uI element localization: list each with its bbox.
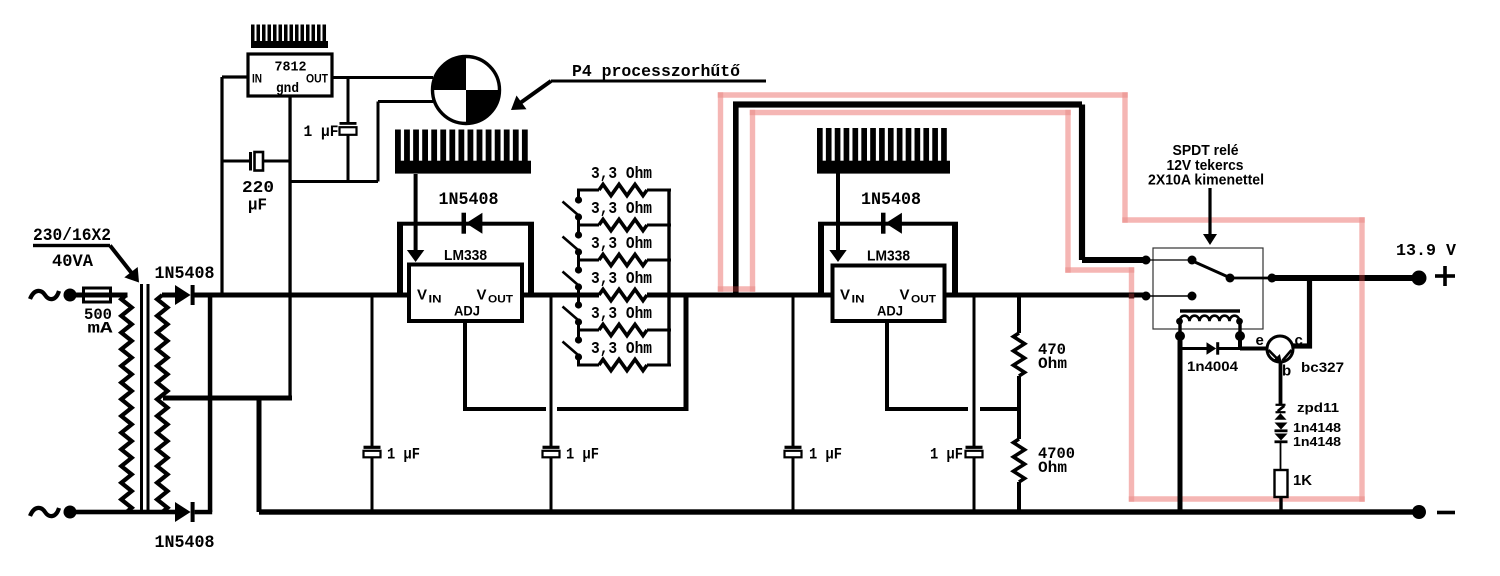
capacitor C3 1uF xyxy=(371,295,374,446)
fuse F1 500mA xyxy=(84,288,111,302)
arrow to fan xyxy=(516,81,551,106)
overlap dark squares xyxy=(733,286,739,291)
svg-text:3,3 Ohm: 3,3 Ohm xyxy=(591,269,652,288)
resistor R5 3,3 Ohm xyxy=(599,324,647,335)
main bus: rectifier to LM338#1 xyxy=(193,293,409,298)
relay coil xyxy=(1180,309,1240,312)
top loop wire: to relay contact xyxy=(1082,257,1146,263)
svg-text:1 µF: 1 µF xyxy=(566,446,599,464)
svg-text:40VA: 40VA xyxy=(52,252,93,272)
resistor R3 right lead xyxy=(647,259,671,262)
diode loop top xyxy=(397,222,534,226)
svg-text:OUT: OUT xyxy=(911,294,936,306)
label underline xyxy=(33,244,110,247)
relay lever end xyxy=(1226,274,1235,283)
svg-text:mA: mA xyxy=(88,320,114,338)
relay wire to output contact xyxy=(1230,277,1272,280)
transistor Q1 bc327 xyxy=(1267,336,1293,362)
label underline xyxy=(551,80,766,83)
svg-text:1N5408: 1N5408 xyxy=(155,264,215,284)
svg-text:Ohm: Ohm xyxy=(1038,459,1067,477)
wire coil left to 0V rail xyxy=(1178,336,1183,512)
svg-text:13.9 V: 13.9 V xyxy=(1396,241,1456,260)
svg-text:V: V xyxy=(477,287,487,304)
flyback diode D5 1n4004 xyxy=(1207,342,1217,355)
resistor R2 right lead xyxy=(647,224,671,227)
heatsink for LM338#1 xyxy=(395,161,531,174)
capacitor C4 1uF xyxy=(550,295,553,446)
wire: bottom input to windings xyxy=(70,510,162,515)
arrowhead xyxy=(511,96,527,111)
wire D5 to emitter node xyxy=(1219,347,1241,350)
arrow to transformer xyxy=(110,246,134,277)
svg-text:1N5408: 1N5408 xyxy=(155,533,215,553)
plus sign xyxy=(1435,274,1455,278)
input terminal bottom (node) xyxy=(64,506,77,519)
switch S5 lever (open) xyxy=(563,342,578,355)
wire 7812 gnd down to center tap xyxy=(288,96,291,398)
coil left lead xyxy=(1178,321,1181,336)
ADJ wire 2 right xyxy=(885,407,968,411)
resistor R6 right lead xyxy=(647,364,671,367)
switch S2 lever (open) xyxy=(563,237,578,250)
wire junction to R8 xyxy=(1017,409,1021,439)
bank right bus xyxy=(667,190,670,365)
svg-text:OUT: OUT xyxy=(488,294,513,306)
svg-text:2X10A kimenettel: 2X10A kimenettel xyxy=(1148,171,1264,188)
input terminal top (node) xyxy=(64,289,77,302)
relay wire lower xyxy=(1146,295,1192,297)
svg-text:IN: IN xyxy=(252,74,262,86)
svg-text:IN: IN xyxy=(852,294,865,306)
wire to 7812 IN pin xyxy=(222,75,248,78)
ADJ wire 2 down xyxy=(885,321,889,409)
transformer core line 1 xyxy=(140,284,143,514)
arrow heatsink to LM338#2 xyxy=(836,171,840,250)
node: relay lower input contact xyxy=(1142,292,1151,301)
svg-text:bc327: bc327 xyxy=(1301,360,1344,375)
bottom 0V rail xyxy=(259,509,1419,514)
switch S4 lower stub xyxy=(577,322,580,330)
svg-text:Ohm: Ohm xyxy=(1038,355,1067,373)
zener diode D6 zpd11 xyxy=(1276,404,1286,406)
diode loop left leg xyxy=(397,224,403,295)
minus sign xyxy=(1437,511,1455,515)
riser: bottom diode output up to bus xyxy=(208,295,213,512)
emitter wire xyxy=(1240,347,1268,351)
capacitor C6 1uF xyxy=(973,295,976,446)
resistor R1 3,3 Ohm xyxy=(599,184,647,195)
svg-text:1 µF: 1 µF xyxy=(387,446,420,464)
protection diode D3 1N5408 across LM338#1 xyxy=(462,213,467,234)
resistor R5 left lead xyxy=(577,329,599,332)
fan return wire to fan xyxy=(378,100,433,103)
wire R9 to 0V rail xyxy=(1279,497,1282,512)
coil right lead xyxy=(1238,321,1241,336)
svg-text:1 µF: 1 µF xyxy=(304,123,339,141)
wire 220uF to gnd wire xyxy=(264,160,291,163)
relay lower fixed contact (open) xyxy=(1188,292,1197,301)
svg-text:1N5408: 1N5408 xyxy=(861,190,921,210)
resistor R6 3,3 Ohm xyxy=(599,359,647,370)
svg-text:1N5408: 1N5408 xyxy=(439,190,499,210)
relay K1 outline box xyxy=(1153,248,1263,329)
relay pivot contact xyxy=(1188,256,1197,265)
ADJ wire down xyxy=(463,321,467,409)
wire secondary top to D1 xyxy=(162,293,176,298)
svg-text:3,3 Ohm: 3,3 Ohm xyxy=(591,234,652,253)
svg-text:1n4148: 1n4148 xyxy=(1293,420,1341,435)
regulator U3 LM338 xyxy=(833,266,945,322)
svg-text:3,3 Ohm: 3,3 Ohm xyxy=(591,199,652,218)
junction coil/diode right xyxy=(1235,331,1245,341)
ADJ wire right (after crossing) xyxy=(557,407,686,411)
resistor R2 left lead xyxy=(577,224,599,227)
ADJ wire right (left of cap crossing) xyxy=(463,407,546,411)
svg-text:b: b xyxy=(1282,363,1291,380)
wire 7812 OUT to fan xyxy=(332,76,433,79)
switch S3 upper stub xyxy=(577,260,580,270)
switch S2 lower stub xyxy=(577,252,580,260)
top loop wire: bus riser xyxy=(733,105,739,296)
center tap drop to 0V rail xyxy=(257,398,262,512)
pink corner overlaps xyxy=(718,92,723,97)
switch S2 upper stub xyxy=(577,225,580,235)
diode D8 1n4148 xyxy=(1275,434,1288,441)
main bus: LM338#1 out to resistor bank xyxy=(521,293,599,298)
svg-text:LM338: LM338 xyxy=(444,247,487,264)
collector wire vertical xyxy=(1307,278,1312,349)
svg-text:P4 processzorhűtő: P4 processzorhűtő xyxy=(572,62,740,81)
resistor R3 left lead xyxy=(577,259,599,262)
AC input tilde top xyxy=(30,291,59,299)
fan return wire horizontal xyxy=(290,180,378,183)
wire to D5 xyxy=(1180,347,1207,350)
wire 7812 IN down to bus xyxy=(220,77,223,295)
resistor R1 left lead xyxy=(577,189,599,192)
svg-text:230/16X2: 230/16X2 xyxy=(33,226,111,246)
switch S1 upper stub xyxy=(577,190,580,200)
relay wire to pivot xyxy=(1146,259,1192,261)
svg-text:OUT: OUT xyxy=(306,74,328,86)
protection diode D4 1N5408 across LM338#2 xyxy=(881,213,886,234)
arrow heatsink to LM338#1 xyxy=(414,174,418,250)
switch S5 lower stub xyxy=(577,357,580,365)
svg-text:1K: 1K xyxy=(1293,473,1313,489)
wire D1 cathode xyxy=(195,293,212,298)
transformer secondary winding xyxy=(157,295,167,512)
top loop wire: horizontal xyxy=(733,101,1082,107)
junction coil/diode left xyxy=(1175,331,1185,341)
heatsink for 7812 xyxy=(251,41,328,48)
capacitor C1 220uF xyxy=(249,152,252,171)
output terminal + xyxy=(1412,271,1427,286)
heatsink for LM338#2 xyxy=(817,161,950,174)
svg-text:3,3 Ohm: 3,3 Ohm xyxy=(591,164,652,183)
transformer core line 2 xyxy=(147,284,150,514)
arrow to relay xyxy=(1208,188,1211,234)
wire R8 to 0V rail xyxy=(1017,482,1021,512)
fan (P4 processor cooler) symbol xyxy=(433,57,500,124)
arrowhead xyxy=(124,267,139,283)
svg-text:7812: 7812 xyxy=(275,61,307,76)
diode loop 2 left leg xyxy=(818,224,824,295)
svg-text:1 µF: 1 µF xyxy=(809,446,842,464)
resistor R1 right lead xyxy=(647,189,671,192)
svg-text:LM338: LM338 xyxy=(867,248,910,265)
resistor R8 4700 Ohm xyxy=(1013,439,1024,482)
collector wire horizontal xyxy=(1293,343,1313,348)
svg-text:ADJ: ADJ xyxy=(877,303,903,319)
switch S4 lever (open) xyxy=(563,307,578,320)
switch S5 upper stub xyxy=(577,330,580,340)
wire to R9 xyxy=(1280,443,1282,470)
ADJ wire 2 right after cap crossing xyxy=(980,407,1019,411)
resistor R9 1K xyxy=(1275,470,1288,497)
svg-text:e: e xyxy=(1256,332,1264,349)
transformer primary winding xyxy=(121,295,131,512)
svg-text:220: 220 xyxy=(242,178,274,197)
ADJ riser to bus after bank xyxy=(684,295,689,411)
wire bus to R7 xyxy=(1017,295,1021,333)
resistor R4 3,3 Ohm xyxy=(599,289,647,300)
diode loop 2 top xyxy=(818,222,958,226)
wire secondary bottom to D2 xyxy=(162,510,176,515)
svg-text:zpd11: zpd11 xyxy=(1297,400,1339,415)
wire to 220uF xyxy=(222,160,249,163)
svg-text:V: V xyxy=(417,287,427,304)
diode loop 2 right leg xyxy=(952,224,958,295)
rectifier diode D2 (bottom 1N5408) xyxy=(175,502,191,522)
svg-text:gnd: gnd xyxy=(276,81,299,97)
wire coil right down xyxy=(1238,336,1242,349)
resistor R7 470 Ohm xyxy=(1013,333,1024,376)
main bus: LM338#2 out to relay xyxy=(944,293,1146,298)
node: relay upper input contact xyxy=(1142,256,1151,265)
svg-text:V: V xyxy=(900,287,910,304)
relay output contact xyxy=(1268,274,1277,283)
resistor R2 3,3 Ohm xyxy=(599,219,647,230)
regulator U2 LM338 xyxy=(409,265,522,322)
svg-text:3,3 Ohm: 3,3 Ohm xyxy=(591,304,652,323)
svg-text:µF: µF xyxy=(248,196,267,215)
resistor R5 right lead xyxy=(647,329,671,332)
switch S3 lower stub xyxy=(577,287,580,295)
switch S3 lever (open) xyxy=(563,272,578,285)
output terminal - xyxy=(1412,505,1426,519)
switch S1 lever (open) xyxy=(563,202,578,215)
resistor R3 3,3 Ohm xyxy=(599,254,647,265)
main bus: bank to LM338#2 xyxy=(647,293,833,298)
svg-text:3,3 Ohm: 3,3 Ohm xyxy=(591,339,652,358)
resistor R6 left lead xyxy=(577,364,599,367)
rectifier diode D1 (top 1N5408) xyxy=(175,285,191,305)
pink highlight trace (high-current path outline) xyxy=(721,95,1363,499)
svg-text:1n4148: 1n4148 xyxy=(1293,434,1341,449)
regulator U1 7812 xyxy=(248,54,332,96)
top loop wire: down to relay xyxy=(1079,105,1085,261)
wire D2 cathode to riser xyxy=(195,510,213,515)
switch S1 lower stub xyxy=(577,217,580,225)
diode loop right leg xyxy=(528,224,534,295)
center tap wire xyxy=(163,396,292,401)
wire to + output xyxy=(1272,275,1419,281)
svg-text:IN: IN xyxy=(429,294,442,306)
wire R7 to junction xyxy=(1017,376,1021,409)
fan return wire drop xyxy=(377,102,380,182)
svg-text:ADJ: ADJ xyxy=(454,303,480,319)
svg-text:V: V xyxy=(840,287,850,304)
capacitor C5 1uF xyxy=(792,295,795,446)
svg-text:1 µF: 1 µF xyxy=(930,446,963,464)
AC input tilde bottom xyxy=(30,508,59,516)
svg-text:1n4004: 1n4004 xyxy=(1187,359,1239,374)
base wire down xyxy=(1279,361,1283,405)
capacitor C2 1uF xyxy=(347,78,350,123)
relay lever xyxy=(1193,261,1231,278)
wire: top input to primary (through fuse) xyxy=(70,293,128,298)
diode D7 1n4148 xyxy=(1275,423,1288,430)
switch S4 upper stub xyxy=(577,295,580,305)
